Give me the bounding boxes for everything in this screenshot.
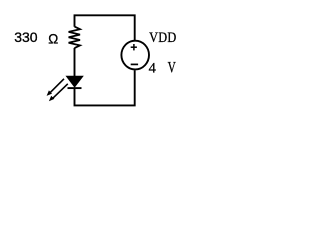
resistor R (zigzag) (69, 27, 80, 48)
minus sign inside source (131, 63, 138, 65)
LED cathode bar (68, 87, 82, 89)
LED D1: anode triangle (filled, pointing down) (66, 76, 83, 87)
svg-text:V: V (168, 59, 176, 76)
LED emitted-light arrow 2 (lower) (49, 84, 68, 101)
wire bottom: LED cathode to source bottom (75, 70, 135, 105)
voltage source V1 (circle) (121, 41, 149, 70)
svg-text:330: 330 (14, 29, 38, 45)
plus sign inside source (131, 46, 137, 48)
svg-text:Ω: Ω (48, 32, 58, 47)
wire top: from resistor branch to source branch (75, 15, 135, 40)
svg-text:VDD: VDD (149, 29, 176, 45)
net label VDD (149, 29, 176, 45)
svg-text:4: 4 (149, 61, 157, 77)
LED emitted-light arrow 1 (upper) (47, 79, 64, 96)
wire: resistor to LED anode (74, 48, 76, 77)
